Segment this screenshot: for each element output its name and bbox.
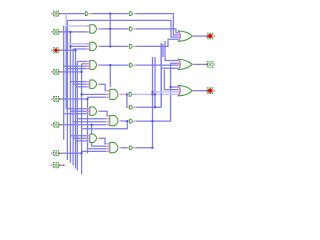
wire AND7 branch down-left <box>82 121 128 129</box>
junction P6 vJ <box>91 124 93 126</box>
wire B6 out to riser <box>137 106 162 108</box>
wire x157 riser <box>154 57 156 107</box>
wire bus vB light top <box>65 14 67 26</box>
output pin O3 value1 <box>207 88 213 94</box>
input pin I7 <box>54 151 59 156</box>
wire AND8 in1 <box>70 135 86 137</box>
buffer B4 <box>128 65 129 66</box>
junction B6 light drop <box>126 93 128 95</box>
junction x155 light row <box>154 93 156 95</box>
junction AND7 out <box>126 120 128 122</box>
junction AND5in2 vH <box>81 93 83 95</box>
wire bus vJ <box>91 125 93 147</box>
wire B2 to OR1 in1 <box>136 29 179 33</box>
junction trunk OR3in3 <box>152 91 154 93</box>
wire AND9 in2 <box>92 145 107 147</box>
or gate OR2 <box>178 59 192 69</box>
wire bus vF <box>75 49 77 168</box>
wire AND7 in2 <box>77 118 106 120</box>
and gate AND3 <box>90 61 97 70</box>
input pin I2 <box>54 29 59 34</box>
input pin I1 <box>54 11 59 16</box>
wire B3 to OR1 in4 <box>136 39 179 46</box>
and gate AND2 <box>90 42 97 50</box>
wire AND6 out to AND7 in1 <box>100 111 108 116</box>
and gate AND9 <box>110 143 118 153</box>
wire OR2 output <box>193 63 207 65</box>
input pin I4 <box>54 69 59 74</box>
wire AND5 in2 <box>82 93 107 95</box>
wire bus vE <box>72 49 74 166</box>
input pin I3 value1 <box>54 48 59 53</box>
wire bus vH <box>81 64 83 175</box>
wire AND3 out row to B4 <box>100 64 128 66</box>
wire B8 to trunk <box>136 147 153 149</box>
junction AND3 out <box>109 64 111 66</box>
junction row1 x110 <box>109 13 111 15</box>
wire AND8 out to AND9 in1 <box>100 138 107 144</box>
buffer B6 <box>128 107 129 108</box>
wire input row I7 <box>59 152 82 154</box>
junction x155 B6 row <box>154 106 156 108</box>
wire AND6 in1 <box>66 108 86 110</box>
wire AND3 in1 <box>77 60 86 62</box>
wire bus vI <box>87 97 89 153</box>
wire AND2 in3 <box>73 48 87 50</box>
buffer B5 <box>128 94 129 95</box>
wire AND8 in2 <box>73 137 87 139</box>
wire OR3 in1 tap <box>171 86 179 88</box>
junction AND2 in2 tap <box>69 45 71 47</box>
junction trunk light row <box>152 93 154 95</box>
input pin I6 <box>54 122 59 127</box>
and gate AND5 <box>110 89 118 99</box>
junction P7 vH <box>81 152 83 154</box>
wire gate A to buffer B1 <box>91 13 128 15</box>
junction AND1 out <box>109 28 111 30</box>
wire bus vB <box>65 26 67 109</box>
wire B1 to OR1 in2 riser <box>136 14 179 35</box>
wire AND5 in3 <box>88 96 107 98</box>
junction AND2 out <box>109 45 111 47</box>
wire input row I1 to gate A <box>59 13 84 15</box>
wire AND9 out to B8 <box>121 147 127 149</box>
junction trunk B8 corner <box>152 147 154 149</box>
wire input row I2 <box>59 31 87 33</box>
wire light drop to B6 <box>126 94 129 107</box>
wire AND9 in4 <box>82 150 107 152</box>
wire AND1 in1 light <box>66 25 86 27</box>
junction P2 vD <box>69 31 71 33</box>
wire input row I3 <box>59 49 76 51</box>
wire AND3 in2 <box>82 63 87 65</box>
wire bus vA <box>63 26 65 140</box>
wire trunk x154 <box>152 57 154 148</box>
output pin O1 value1 <box>207 33 213 39</box>
wire AND4 out to AND5 in1 <box>100 84 107 91</box>
wire B4 to OR2 in3 <box>136 64 179 66</box>
wire AND7 out to junction <box>121 120 127 122</box>
wire AND2 in1 <box>67 43 86 45</box>
or gate OR1 <box>178 31 192 41</box>
wire AND2 in2 <box>70 45 86 47</box>
output pin O2 value0 <box>207 62 213 68</box>
wire input row I5 <box>59 98 88 100</box>
input pin I5 <box>54 97 59 102</box>
junction P4 vH <box>81 71 83 73</box>
buffer gate A <box>84 13 85 14</box>
wire AND5 out light <box>121 93 127 95</box>
wire OR3 output <box>193 90 207 92</box>
buffer B3 <box>128 46 129 47</box>
wire AND9 in3 <box>88 148 107 150</box>
wire OR2 in1 riser <box>165 41 179 61</box>
and gate AND1 <box>90 25 97 33</box>
wire bus vD <box>69 32 71 163</box>
junction OR2in2 OR3in1 <box>170 86 172 88</box>
wire OR3 in3 light <box>153 91 179 93</box>
wire AND6 in3 <box>64 113 87 115</box>
or gate OR3 <box>178 86 192 96</box>
wire net-T distribution row <box>67 20 178 37</box>
wire OR2 in4 riser <box>160 43 162 107</box>
wire link x110 rows <box>109 14 111 47</box>
wire AND4 in1 <box>70 81 86 83</box>
wire AND7 net riser to OR2 OR3 <box>136 63 179 121</box>
wire AND7 in3 <box>73 121 106 123</box>
and gate AND4 <box>90 80 97 88</box>
wire stub riser x163 <box>162 44 164 57</box>
buffer B8 <box>128 147 129 148</box>
wire AND2 out row to B3 <box>100 45 128 47</box>
wire AND3 in4 <box>66 68 86 70</box>
wire OR3 in2 riser <box>164 70 178 90</box>
wire AND1 out row to B2 <box>100 28 128 30</box>
and gate AND6 <box>90 107 97 115</box>
junction P3 vF <box>75 49 77 51</box>
wire AND8 in3 <box>76 140 87 142</box>
wire bus vG <box>76 61 78 170</box>
wire AND4 in2 <box>73 83 87 85</box>
wire AND4 in3 <box>76 86 87 88</box>
wire B5 light row to OR3 in4 <box>136 93 179 95</box>
buffer B7 <box>128 121 129 122</box>
input pin I8 <box>54 163 59 168</box>
and gate AND8 <box>90 134 97 142</box>
wire input row I6 to AND7 <box>59 124 106 126</box>
wire OR1 output <box>193 35 207 37</box>
wire AND3 in3 <box>64 65 87 67</box>
wire input row I4 <box>59 71 82 73</box>
wire input row I8 stub <box>59 164 63 166</box>
buffer B1 <box>128 13 129 14</box>
and gate AND7 <box>110 116 118 126</box>
wire AND6 in2 <box>70 110 86 112</box>
wire stub x110 mid <box>109 65 111 87</box>
junction trunk AND7row <box>152 120 154 122</box>
wire bus vC <box>66 20 68 160</box>
buffer B2 <box>128 28 129 29</box>
junction P5 vI <box>87 98 89 100</box>
